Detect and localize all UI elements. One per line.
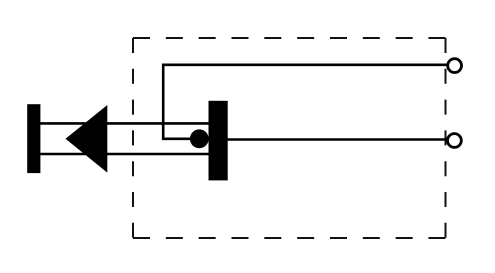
electrode bar [209,101,228,181]
transducer front plate (left bar) [27,104,40,173]
terminal 1 (top pin circle) [448,59,462,73]
wire: upper lead from front plate to electrode bar [30,122,210,125]
transducer cone (left-pointing triangle) [66,105,108,173]
terminal 2 (bottom pin circle) [448,134,462,148]
package outline (dashed box) [133,38,446,238]
junction dot [190,129,209,148]
wire: lower lead from front plate to electrode bar [30,153,210,156]
wire: right run from electrode bar to terminal 2 [226,138,448,141]
wire: junction stub, riser and top run to terminal 1 [163,65,447,139]
